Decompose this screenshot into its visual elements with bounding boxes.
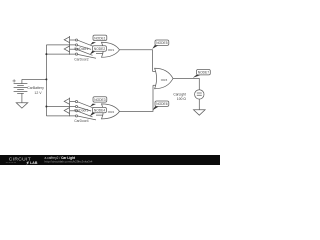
svg-text:OR3: OR3 [161, 78, 168, 82]
wire sw2 pole [46, 53, 75, 55]
switch CarDoor2 [64, 46, 77, 55]
wire sw1 pole [46, 44, 75, 46]
wire OR3 output [173, 79, 199, 90]
svg-text:OR1: OR1 [108, 48, 115, 52]
svg-text:⚡LAB: ⚡LAB [26, 160, 38, 165]
svg-text:http://circuitlab.com/c/b29hc3: http://circuitlab.com/c/b29hc3vka3r4 [45, 159, 93, 163]
wire OR1 output [120, 50, 153, 72]
node flag NODE1 [90, 35, 107, 45]
battery V1 wire top [21, 79, 23, 83]
svg-text:OR2: OR2 [108, 110, 115, 114]
lamp ground wire [198, 99, 200, 110]
battery ground wire [21, 93, 23, 102]
wire sw4 pole diag to OR2 [78, 116, 97, 120]
wire OR3 input top stub [153, 70, 157, 72]
wire OR2 output [120, 85, 154, 111]
svg-text:NODE7: NODE7 [198, 71, 210, 75]
svg-text:NODE6: NODE6 [156, 102, 168, 106]
svg-text:CarDoor2: CarDoor2 [74, 57, 88, 61]
switch CarDoor1 [64, 36, 77, 55]
svg-text:100 Ω: 100 Ω [177, 97, 186, 101]
svg-text:NODE1: NODE1 [94, 36, 106, 40]
node flag NODE2 [90, 46, 107, 55]
wire sw2 throw to NODE2 [78, 50, 93, 56]
svg-text:∼∼∼∼: ∼∼∼∼ [6, 161, 17, 165]
wire sw4 throw to NODE4 [78, 111, 93, 117]
footer logo CIRCUIT LAB [6, 157, 38, 165]
wire sw3 pole diag to NODE4 [78, 107, 92, 111]
switch CarDoor4 [64, 108, 77, 117]
wire sw4 pole [46, 115, 75, 117]
svg-text:NODE4: NODE4 [94, 109, 106, 113]
wire sw3 throw to NODE3 [78, 102, 93, 108]
wire sw3 pole [46, 106, 75, 108]
svg-text:NODE3: NODE3 [94, 98, 106, 102]
node flag NODE6 [153, 101, 169, 110]
svg-text:CarDoor4: CarDoor4 [74, 119, 88, 123]
junction sw2 [45, 53, 47, 55]
svg-text:NODE2: NODE2 [94, 47, 106, 51]
node flag NODE5 [152, 40, 169, 49]
svg-text:NODE5: NODE5 [156, 41, 168, 45]
wire sw2 pole diag to OR1 [78, 54, 97, 58]
wire left bus vertical [45, 45, 47, 116]
junction sw3 [45, 106, 47, 108]
wire OR3 input bottom stub [153, 84, 156, 86]
node flag NODE7 [193, 70, 211, 78]
wire battery to bus [22, 78, 47, 80]
ground battery [16, 103, 28, 108]
or-gate OR3 [155, 68, 173, 88]
lamp CarLight [195, 90, 204, 99]
wire sw1 throw to NODE1 [78, 40, 93, 46]
battery plus sign [13, 79, 16, 82]
svg-text:12 V: 12 V [34, 91, 42, 95]
junction battery [45, 78, 47, 80]
svg-text:CarBattery: CarBattery [27, 86, 44, 90]
node flag NODE4 [90, 107, 107, 116]
switch CarDoor3 [64, 98, 77, 117]
or-gate OR2 [96, 104, 120, 119]
battery V1 plates [14, 84, 28, 92]
node flag NODE3 [90, 97, 107, 107]
or-gate OR1 [96, 42, 120, 57]
ground lamp [194, 110, 206, 115]
footer bar [0, 155, 220, 165]
wire sw1 pole diag to NODE2 [78, 45, 92, 49]
